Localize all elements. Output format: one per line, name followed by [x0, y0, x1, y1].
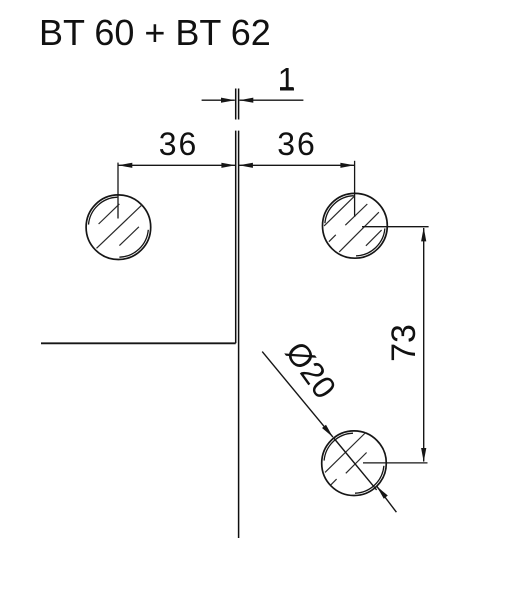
diameter leader lower segment: [377, 486, 397, 512]
hole left inner arc bottom-right: [119, 230, 148, 257]
panel gap line lower segment: [236, 131, 239, 538]
dim line 1 right segment: [239, 99, 303, 101]
arrow diameter lower: [377, 486, 388, 498]
arrow dim1 right: [239, 98, 253, 103]
arrow 36L right: [221, 163, 235, 168]
arrow 73 top: [421, 227, 426, 241]
arrow 36R right: [340, 163, 354, 168]
arrow 36L left: [118, 163, 132, 168]
svg-text:73: 73: [385, 324, 423, 362]
hole top-right circle: [323, 193, 388, 258]
hole left hatch 1: [99, 204, 120, 224]
digit 1 foot bar: [280, 87, 294, 90]
extension line left hole: [117, 163, 119, 219]
dim line 73: [423, 228, 425, 462]
diameter line through hole: [333, 438, 376, 490]
hole bottom hatch 1: [325, 433, 366, 473]
hole bottom hatch 2: [346, 453, 367, 474]
svg-text:36: 36: [277, 126, 317, 162]
hole top-right hatch 2: [345, 204, 367, 225]
diameter leader upper segment: [262, 352, 333, 438]
hole top-right hatch 3: [329, 235, 336, 242]
arrow 36R left: [239, 163, 253, 168]
hole left circle: [86, 195, 151, 260]
hole left hatch 3: [119, 227, 138, 246]
hole bottom circle: [322, 431, 387, 496]
hole top-right inner arc top-left: [325, 196, 354, 224]
svg-text:36: 36: [159, 126, 199, 162]
hole top-right hatch 5: [366, 230, 382, 246]
hole top-right inner arc bottom-right: [356, 228, 385, 256]
hole left hatch 2: [97, 205, 143, 249]
arrow dim1 left: [221, 98, 235, 103]
dim line 36 right: [239, 164, 355, 166]
hole top-right hatch 4: [339, 212, 379, 252]
hole bottom inner arc top-left: [324, 433, 353, 460]
hole left inner arc top-left: [89, 197, 118, 224]
extension line right hole: [354, 161, 356, 217]
extension line 73 bottom: [363, 462, 428, 464]
svg-text:1: 1: [278, 62, 296, 98]
hole top-right hatch 1: [324, 196, 354, 226]
dim line 1 left segment: [202, 99, 235, 101]
arrow 73 bottom: [421, 448, 426, 462]
arrow diameter upper: [322, 425, 333, 437]
hole bottom inner arc bottom-right: [355, 466, 384, 493]
dim line 36 left: [118, 164, 235, 166]
left panel bottom edge: [41, 342, 236, 344]
hole bottom hatch 3: [331, 479, 337, 485]
panel gap line upper segment: [236, 89, 239, 120]
svg-text:Ø20: Ø20: [279, 335, 344, 405]
svg-text:BT 60 + BT 62: BT 60 + BT 62: [39, 12, 271, 53]
extension line 73 top: [362, 226, 429, 228]
